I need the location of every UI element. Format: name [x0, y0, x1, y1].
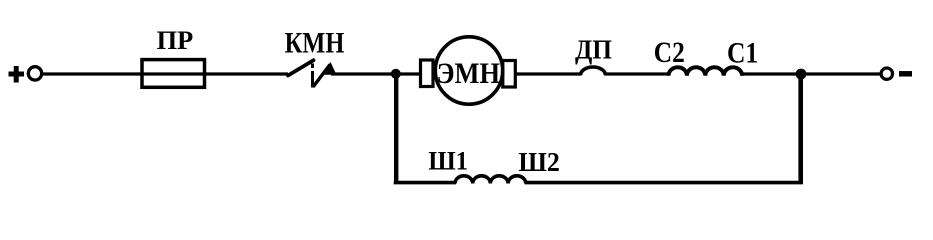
wire bottom rail left of shunt coil: [394, 181, 456, 185]
plus polarity label "+": [9, 66, 25, 83]
wire from left terminal through fuse to switch: [42, 72, 288, 75]
inductor ДП (commutating pole winding): [581, 67, 606, 75]
svg-text:КМН: КМН: [285, 28, 345, 60]
terminal right (- output): [881, 68, 892, 79]
wire node B down to shunt branch: [798, 74, 803, 183]
terminal left (+ input): [28, 67, 41, 80]
wire from series coil to right terminal: [741, 72, 881, 75]
node A junction dot: [391, 69, 401, 79]
svg-text:ЭМН: ЭМН: [437, 57, 500, 90]
svg-text:ДП: ДП: [575, 35, 612, 65]
wire node A down to shunt branch: [394, 74, 398, 183]
wire from motor to coil ДП: [515, 72, 582, 75]
wire from ДП to series coil: [605, 72, 670, 75]
svg-text:С2: С2: [654, 36, 685, 69]
motor ЭМН (armature with brushes): [421, 37, 516, 104]
svg-text:Ш2: Ш2: [518, 147, 560, 178]
switch КМН (contactor contact): [288, 60, 337, 87]
inductor Ш1-Ш2 (shunt field winding): [455, 176, 526, 184]
wire bottom rail right of shunt coil: [525, 181, 803, 185]
fuse ПР: [142, 60, 205, 88]
svg-text:С1: С1: [727, 37, 758, 70]
node B junction dot: [796, 69, 807, 80]
svg-text:ПР: ПР: [157, 25, 194, 55]
inductor С2-С1 (series winding): [669, 67, 743, 76]
wire from switch to motor: [331, 72, 421, 75]
minus polarity label "-": [899, 71, 912, 77]
svg-text:Ш1: Ш1: [428, 146, 468, 176]
